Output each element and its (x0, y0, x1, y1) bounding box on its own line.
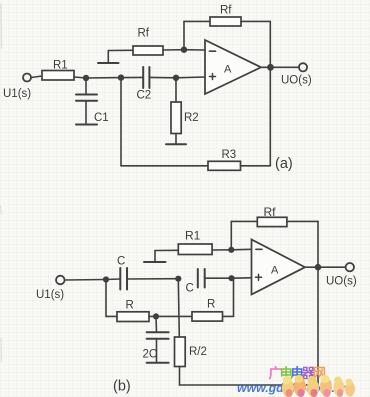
wire node A1 down to C1 (85, 78, 87, 94)
node B5 inverting input (228, 247, 234, 253)
capacitor 2C (147, 331, 169, 333)
wire R left to node B4 (149, 315, 156, 317)
svg-text:R: R (207, 299, 215, 311)
wire node A3 to op-amp + input (176, 76, 205, 79)
capacitor C (right) (197, 269, 199, 288)
svg-text:U1(s): U1(s) (36, 289, 64, 301)
resistor R (left) (117, 312, 149, 322)
scan edge artifacts (0, 4, 3, 362)
feedback top wire right (241, 20, 270, 22)
feedback right vertical (b) (317, 267, 319, 385)
node A5 output (267, 64, 274, 71)
svg-text:R1: R1 (185, 229, 201, 243)
watermark mascots (282, 375, 355, 397)
op-amp A (a) (205, 40, 261, 94)
wire R1 to node B5 (212, 249, 231, 251)
feedback top wire left (184, 20, 210, 22)
node B4 (153, 313, 159, 319)
bottom feedback wire with R3 (121, 165, 208, 167)
wire ground to Rf lower (108, 49, 133, 51)
wire R right up to node B3 (223, 315, 234, 317)
node B1 (103, 276, 109, 282)
plus sign (b) (256, 276, 262, 278)
resistor R/2 (175, 337, 186, 367)
wire C right to node B3 (205, 277, 232, 279)
resistor R (right) (192, 312, 223, 321)
wire ground to R1 (155, 249, 178, 251)
input terminal U1(s) (a) (23, 74, 31, 82)
capacitor 2C stem (155, 316, 158, 332)
svg-text:R1: R1 (53, 60, 68, 72)
capacitor C (left) (119, 268, 121, 290)
resistor R3 (208, 161, 241, 170)
svg-text:(b): (b) (113, 379, 131, 395)
svg-text:UO(s): UO(s) (326, 276, 357, 288)
node A3 (173, 75, 179, 81)
input terminal U1(s) (b) (56, 276, 65, 285)
wire node B2 down to R/2 (178, 279, 179, 337)
wire node A2 down to bottom loop (120, 78, 122, 166)
wire C to node B2 (127, 278, 178, 280)
capacitor C2 (142, 67, 144, 88)
wire node A2 to C2 (121, 76, 143, 78)
svg-text:C2: C2 (137, 90, 152, 102)
wire node B5 up to Rf (b) (230, 221, 232, 249)
svg-text:C: C (186, 283, 194, 295)
resistor R1 (b) (178, 244, 212, 255)
feedback top wire left (b) (231, 220, 257, 222)
node B6 output (315, 264, 322, 271)
minus sign (b) (256, 248, 262, 250)
wire C2 to node A3 (149, 76, 176, 78)
svg-text:R: R (126, 300, 134, 312)
ground for R1 (b) (154, 251, 156, 262)
svg-text:2C: 2C (143, 349, 158, 361)
wire input to R1 (31, 76, 42, 78)
minus sign (a) (210, 50, 216, 52)
ground below 2C (147, 362, 169, 364)
wire node A3 down to R2 (175, 78, 177, 102)
bottom feedback wire (b) (180, 384, 319, 386)
resistor Rf (lower) (133, 46, 163, 55)
node A1 (83, 75, 89, 81)
wire node B1 to C (106, 278, 120, 281)
wire node A4 to op-amp - input (184, 49, 205, 51)
feedback top wire right (b) (287, 220, 318, 222)
node B2 (175, 276, 181, 282)
watermark 广电电器网 (269, 365, 327, 381)
op-amp A (b) (252, 240, 306, 295)
wire node B5 to op-amp - input (231, 248, 251, 251)
svg-text:R3: R3 (222, 149, 237, 161)
wire node B3 to op-amp + input (232, 277, 252, 279)
svg-text:UO(s): UO(s) (281, 75, 312, 87)
wire input to node B1 (65, 279, 106, 282)
resistor Rf (top) (210, 17, 241, 26)
node A2 (118, 74, 124, 80)
ground below R2 (166, 143, 186, 145)
svg-text:R2: R2 (184, 112, 199, 124)
svg-text:A: A (271, 265, 279, 277)
svg-text:C1: C1 (94, 112, 109, 124)
wire R1 to node A1 (74, 77, 86, 78)
wire Rf lower to node A4 (163, 49, 184, 51)
ground for Rf (lower) (107, 51, 109, 63)
wire op-amp output to terminal (b) (305, 266, 346, 268)
wire node A1 to node A2 (86, 77, 121, 79)
svg-text:Rf: Rf (264, 205, 277, 219)
capacitor C1 (76, 94, 97, 96)
watermark www url (237, 381, 349, 395)
node A4 inverting input (181, 47, 187, 53)
node B3 (228, 275, 234, 281)
feedback right vertical wire (269, 21, 271, 165)
svg-text:Rf: Rf (220, 5, 232, 17)
wire node B4 to R right (156, 315, 192, 317)
ground below C1 (76, 124, 97, 126)
svg-text:C: C (117, 256, 125, 268)
svg-text:R/2: R/2 (189, 346, 207, 358)
svg-text:A: A (224, 64, 232, 76)
resistor R1 (42, 71, 74, 81)
resistor R2 (171, 102, 181, 134)
resistor Rf (b) (257, 217, 287, 226)
wire node A4 up to feedback (183, 21, 185, 49)
output terminal UO(s) (a) (299, 63, 307, 71)
plus sign (a) (210, 76, 216, 78)
svg-text:(a): (a) (275, 156, 293, 172)
svg-text:Rf: Rf (138, 28, 150, 40)
wire R/2 down to bottom feedback (179, 367, 181, 386)
svg-text:U1(s): U1(s) (3, 88, 31, 100)
wire node B1 down to R path (105, 280, 107, 317)
wire op-amp output to terminal (261, 66, 299, 68)
output terminal UO(s) (b) (346, 263, 354, 271)
